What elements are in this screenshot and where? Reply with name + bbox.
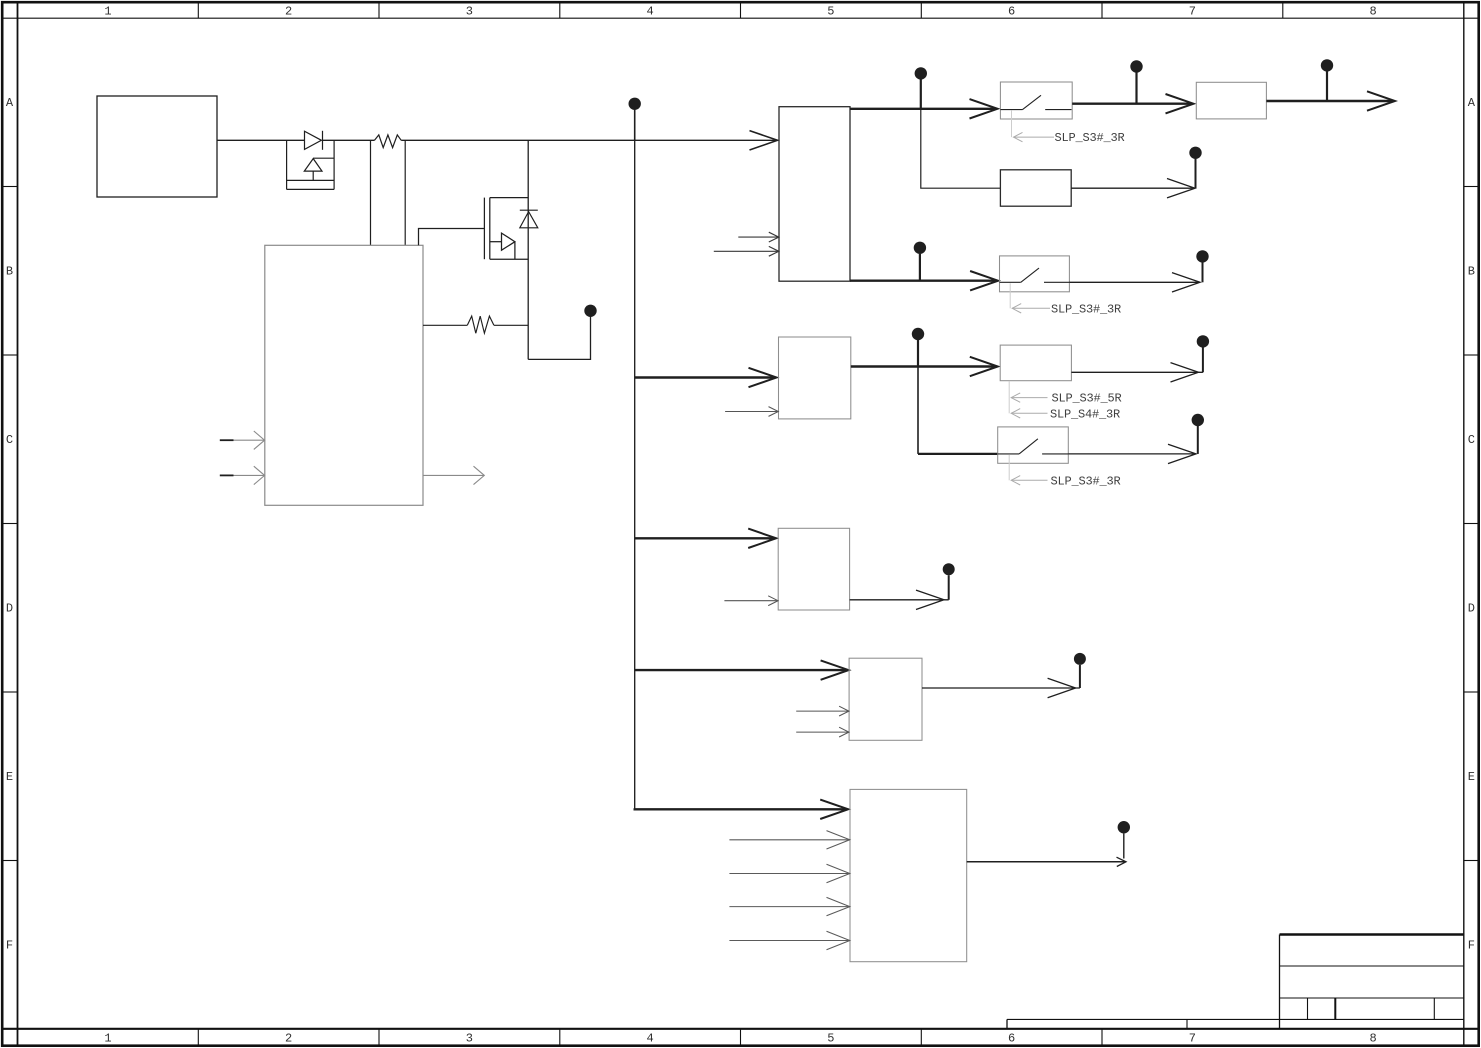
transistor Q1 (pack with body diode, parallel branch) [287, 140, 335, 189]
svg-text:8: 8 [1369, 5, 1376, 19]
column tick marks [198, 2, 1283, 1046]
svg-text:SLP_S3#_3R: SLP_S3#_3R [1051, 474, 1121, 488]
wire rail C down feed to SW3 [917, 367, 919, 454]
svg-text:1: 1 [104, 5, 111, 19]
svg-text:A: A [6, 96, 14, 110]
svg-text:1: 1 [104, 1032, 111, 1046]
svg-text:C: C [1468, 433, 1475, 447]
row letters right [1468, 96, 1476, 953]
node U9 output tap [1074, 653, 1086, 688]
node rail A tap [915, 67, 927, 109]
node tap [1130, 60, 1142, 103]
svg-text:B: B [1468, 265, 1475, 279]
svg-text:B: B [6, 265, 13, 279]
wire U9 enable inputs [796, 706, 849, 737]
wire U2 output [423, 466, 484, 484]
wire rail C out of U6 [851, 365, 997, 367]
regulator box U5 [1000, 170, 1071, 206]
wire rail A2 drop [921, 109, 1001, 188]
wire main VIN net [217, 139, 777, 141]
wire U2 input stubs [220, 440, 234, 475]
svg-text:5: 5 [827, 1032, 834, 1046]
wire Q2 drain-source [527, 140, 529, 359]
column numbers top [104, 5, 1376, 19]
label SLP_S3#_3R leader [1009, 455, 1047, 485]
wire U6 enable input [725, 407, 778, 417]
svg-text:2: 2 [285, 5, 292, 19]
node rail A output tap [1321, 59, 1333, 101]
regulator box U10 [850, 789, 967, 961]
node U8 output tap [943, 563, 955, 600]
wire U10 enable inputs [729, 831, 850, 950]
svg-text:F: F [1468, 939, 1475, 953]
svg-text:3: 3 [466, 5, 473, 19]
regulator box U6 [779, 337, 851, 419]
resistor R1 (current sense) [375, 135, 402, 148]
node rail C tap [912, 328, 924, 367]
diode D2 (Q2 body diode) [520, 210, 538, 228]
svg-text:5: 5 [827, 5, 834, 19]
svg-text:SLP_S4#_3R: SLP_S4#_3R [1050, 407, 1120, 421]
wire U5 output [1071, 179, 1195, 198]
resistor R2 [423, 316, 528, 333]
regulator bank box U3 [779, 107, 850, 282]
switch SW2 [1000, 256, 1070, 292]
wire Q2 source net [528, 317, 590, 360]
wire U8 output [850, 590, 949, 609]
svg-text:7: 7 [1189, 1032, 1196, 1046]
svg-text:SLP_S3#_5R: SLP_S3#_5R [1052, 392, 1122, 406]
wire rail A out of U3 [850, 108, 997, 110]
svg-text:7: 7 [1189, 5, 1196, 19]
title block [1007, 935, 1464, 1030]
svg-text:4: 4 [646, 1032, 653, 1046]
load box U4 [1196, 82, 1266, 119]
wire SW2 output [1069, 273, 1200, 292]
wire SW1 to load switch box [1072, 102, 1192, 104]
wire bus branch row C [635, 376, 775, 378]
svg-text:6: 6 [1008, 5, 1015, 19]
node U10 output tap [1118, 821, 1130, 859]
wire U10 output [967, 861, 1126, 863]
wire main vertical bus [634, 140, 636, 809]
node SW2 output tap [1196, 250, 1208, 282]
wire arrow into regulator bank [750, 131, 778, 150]
svg-text:E: E [6, 770, 13, 784]
node source tap [584, 305, 596, 317]
column numbers bottom [104, 1032, 1376, 1046]
wire bus branch row D [635, 537, 775, 539]
diode D1 [305, 131, 323, 150]
switch SW3 [998, 427, 1069, 463]
node bus tap A [629, 98, 641, 141]
wire rail A output [1266, 100, 1394, 102]
svg-text:3: 3 [466, 1032, 473, 1046]
wire U3 enable inputs [714, 232, 779, 256]
wire rail B out of U3 [850, 280, 996, 282]
power source box U1 [97, 96, 217, 197]
row tick marks [2, 187, 1479, 861]
node U5 output tap [1189, 147, 1201, 189]
regulator box U9 [849, 658, 922, 740]
node U7 output tap [1197, 335, 1209, 372]
wire bus branch row E [635, 669, 847, 671]
wire U8 enable input [724, 596, 778, 606]
svg-text:SLP_S3#_3R: SLP_S3#_3R [1051, 302, 1121, 316]
svg-text:6: 6 [1008, 1032, 1015, 1046]
wire gate drive [419, 229, 485, 246]
svg-text:8: 8 [1369, 1032, 1376, 1046]
wire U7 output [1071, 363, 1203, 382]
switch SW1 [1000, 82, 1072, 119]
svg-text:A: A [1468, 96, 1476, 110]
controller box U2 [265, 245, 423, 505]
wire sense taps to controller [371, 140, 406, 245]
wire U9 output [922, 678, 1080, 697]
svg-text:4: 4 [646, 5, 653, 19]
regulator box U8 [778, 528, 849, 610]
label SLP_S3#_3R leader [1012, 111, 1055, 142]
row letters left [6, 96, 14, 953]
node rail B tap [914, 242, 926, 281]
label SLP_S3#_3R leader [1010, 283, 1050, 313]
wire SW3 output [1068, 444, 1196, 463]
label SLP_S3#_5R / SLP_S4#_3R leaders [1009, 381, 1047, 418]
svg-text:C: C [6, 433, 13, 447]
svg-text:D: D [1468, 602, 1475, 616]
wire bus branch row F [635, 808, 847, 809]
svg-text:E: E [1468, 770, 1475, 784]
node SW3 output tap [1192, 414, 1204, 454]
svg-text:F: F [6, 939, 13, 953]
svg-text:D: D [6, 602, 13, 616]
transistor Q2 (P-FET) [484, 198, 528, 260]
svg-text:2: 2 [285, 1032, 292, 1046]
svg-text:SLP_S3#_3R: SLP_S3#_3R [1055, 131, 1125, 145]
load box U7 [1000, 345, 1071, 381]
